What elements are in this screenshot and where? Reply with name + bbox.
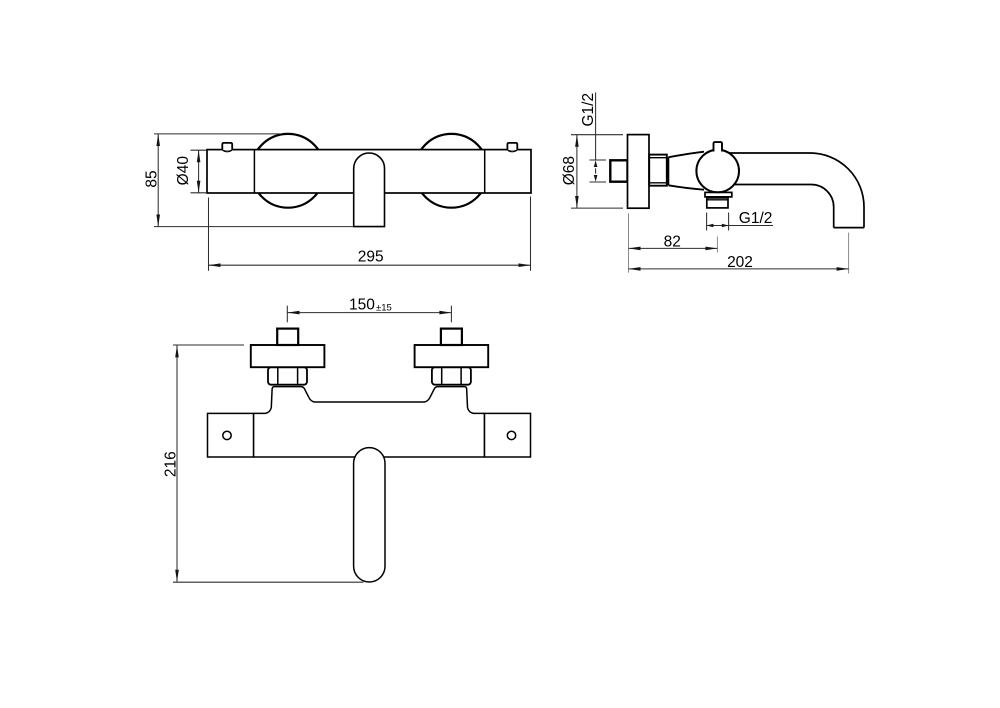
left bracket hole — [223, 431, 231, 439]
connection nut side view — [649, 155, 667, 186]
lever bottom view — [354, 448, 385, 582]
dim D68 extension bottom — [571, 207, 623, 209]
dim 202 line — [629, 268, 849, 270]
dim 295 line — [209, 264, 531, 266]
dim G1/2 inlet arrow down — [594, 175, 598, 182]
thermostat knob circle side view — [696, 150, 739, 193]
wall escutcheon side view — [628, 135, 650, 209]
dim G1/2 outlet arrow left — [707, 224, 714, 227]
right wall bracket — [485, 413, 531, 457]
shower outlet nipple side view — [707, 197, 728, 208]
bottom outlet flange side view — [705, 192, 732, 197]
dim 216 extension bottom — [173, 581, 363, 583]
spout side view — [719, 153, 864, 228]
dim 216 line — [176, 345, 178, 581]
dim 150 arrow right — [439, 311, 451, 315]
dim D40 arrow down — [197, 181, 201, 193]
dim 82 arrow right — [705, 247, 717, 251]
faucet body bar front view — [207, 150, 531, 193]
svg-text:G1/2: G1/2 — [739, 210, 773, 227]
dim D40 extension top — [191, 149, 207, 151]
svg-text:85: 85 — [143, 170, 160, 187]
wall inlet union side view — [610, 160, 627, 181]
body end seam right — [484, 150, 486, 193]
dim 85 arrow up — [156, 134, 160, 146]
left screw cap on bar — [222, 143, 232, 150]
dim 202 arrow right — [837, 267, 849, 271]
dim G1/2 inlet line — [595, 93, 597, 160]
dim 82 line — [629, 247, 718, 249]
dim 150 extension right — [450, 306, 452, 323]
dim G1/2 outlet arrow right — [722, 224, 729, 227]
dim 82 202 extension left — [628, 214, 630, 273]
svg-text:±15: ±15 — [376, 303, 392, 314]
body end seam left — [253, 150, 255, 193]
body cone side view — [668, 152, 704, 190]
left valve flange — [251, 345, 325, 367]
dim D68 extension top — [571, 134, 623, 136]
dim G1/2 inlet extension top — [590, 159, 607, 161]
dim 216 arrow up — [175, 345, 179, 357]
dim 150 extension left — [286, 306, 288, 323]
dim 85 line — [157, 134, 159, 227]
dim D40 arrow up — [197, 150, 201, 162]
dim 216 extension top — [173, 344, 244, 346]
dim G1/2 inlet extension bottom — [590, 181, 607, 183]
dim 295 extension left — [208, 198, 210, 271]
svg-text:295: 295 — [358, 248, 384, 265]
dim 85 extension line top — [154, 133, 280, 135]
svg-text:82: 82 — [664, 233, 681, 250]
svg-text:202: 202 — [727, 254, 753, 271]
dim G1/2 inlet arrow up — [594, 160, 598, 167]
right handle circle front view — [415, 134, 489, 208]
dim 295 arrow left — [209, 263, 221, 267]
dim 85 extension line bottom — [154, 226, 354, 228]
dim 150 arrow left — [288, 311, 300, 315]
dim 202 extension right — [848, 233, 850, 274]
dim G1/2 outlet extension left — [706, 213, 708, 231]
lever handle front view — [354, 153, 385, 227]
body outline bottom view — [254, 387, 485, 457]
dim 82 arrow left — [629, 247, 641, 251]
right screw cap on bar — [507, 143, 517, 150]
left handle circle front view — [251, 134, 325, 208]
dim 85 arrow down — [156, 215, 160, 227]
right valve screw — [441, 329, 462, 345]
svg-text:G1/2: G1/2 — [580, 93, 597, 127]
dim D68 line — [576, 135, 578, 208]
svg-text:Ø40: Ø40 — [175, 156, 192, 186]
dim D40 extension bottom — [191, 192, 207, 194]
dim G1/2 outlet extension right — [728, 213, 730, 231]
dim 82 extension right — [716, 237, 718, 253]
dim 295 extension right — [530, 197, 532, 271]
right valve flange — [415, 345, 489, 367]
svg-text:150: 150 — [349, 296, 375, 313]
dim 295 arrow right — [519, 263, 531, 267]
left valve screw — [277, 329, 298, 345]
dim 216 arrow down — [175, 570, 179, 582]
svg-text:Ø68: Ø68 — [561, 156, 578, 185]
left wall bracket — [208, 413, 254, 457]
dim G1/2 outlet line with leader — [707, 225, 773, 227]
dim 202 arrow left — [629, 267, 641, 271]
dim D68 arrow down — [575, 196, 579, 208]
left valve nut — [268, 367, 307, 385]
dim D68 arrow up — [575, 135, 579, 147]
safety button side view — [714, 142, 723, 151]
right bracket hole — [507, 431, 515, 439]
dim D40 line — [198, 150, 200, 192]
dim 150 line — [288, 312, 452, 314]
right valve nut — [432, 367, 471, 385]
